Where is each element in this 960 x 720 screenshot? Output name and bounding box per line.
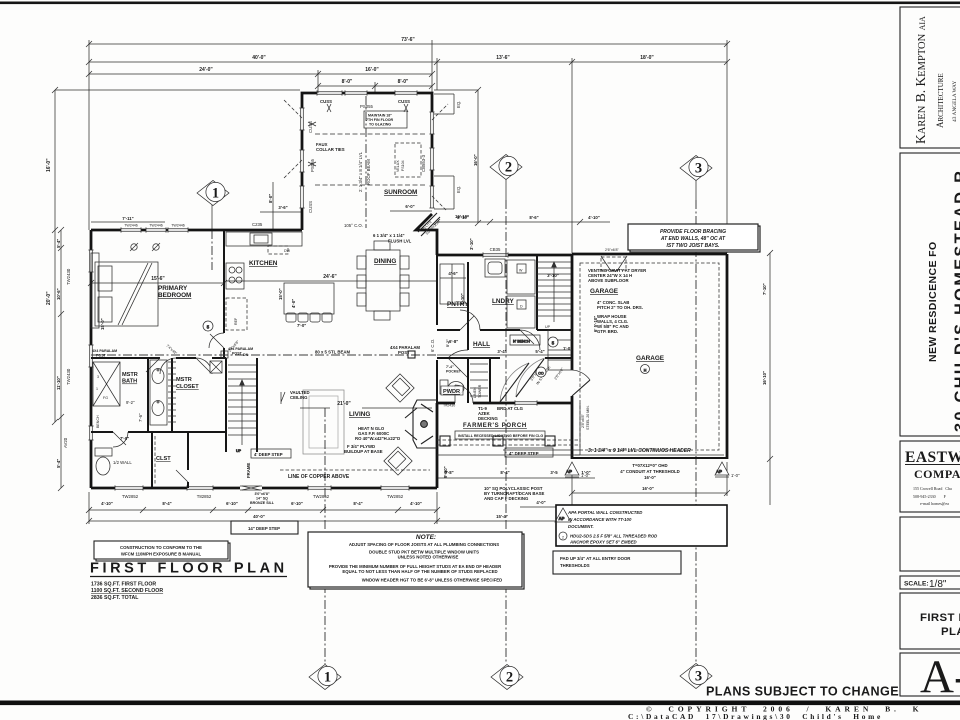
svg-text:8'-6": 8'-6" [529,215,538,220]
svg-text:9'-10": 9'-10" [443,466,448,478]
grid line 1 upper [211,230,213,270]
linen closet wall x490 [489,358,491,403]
bedroom door arc [209,333,224,348]
svg-text:ADJUST SPACING OF FLOOR JOISTS: ADJUST SPACING OF FLOOR JOISTS AT ALL PL… [349,542,499,547]
svg-text:3: 3 [695,669,702,685]
svg-text:BATH: BATH [122,379,137,385]
svg-text:5'-2": 5'-2" [446,339,450,347]
porch dim 15'-4 [437,520,580,522]
wall laundry east / stair west x537 [536,255,538,330]
svg-text:IST TWO JOIST BAYS.: IST TWO JOIST BAYS. [667,243,720,249]
svg-text:3: 3 [695,161,702,177]
svg-text:DOCUMENT.: DOCUMENT. [568,524,594,529]
svg-text:4'-6": 4'-6" [448,271,457,276]
svg-text:13'-6": 13'-6" [496,55,510,61]
svg-text:8'-0": 8'-0" [398,79,409,85]
svg-text:7'-10": 7'-10" [762,283,767,295]
svg-text:8'-4": 8'-4" [162,501,171,506]
svg-text:TW2430: TW2430 [66,368,71,385]
svg-text:SUNROOM: SUNROOM [384,189,417,196]
svg-text:PS055: PS055 [360,104,374,109]
title box sheet name [900,593,960,649]
toilet wc [95,448,112,475]
garage top wall [572,253,727,256]
svg-text:HDU2-SDS 2.5 F 5/8" ALL THREAD: HDU2-SDS 2.5 F 5/8" ALL THREADED ROD [570,534,657,539]
svg-text:1'-0": 1'-0" [581,473,590,478]
porch post [440,436,450,446]
svg-text:e-mail homes@ea: e-mail homes@ea [920,501,949,506]
cooktop [226,263,244,289]
svg-text:2'8"x6'8": 2'8"x6'8" [581,414,585,428]
left inner dim column [60,230,62,488]
wall hall bottom / porch top [437,402,572,405]
bottom dim row 40'-0" [89,520,437,522]
svg-text:15'-4": 15'-4" [496,514,508,519]
svg-text:3: 3 [97,375,99,379]
svg-text:105° C.O.: 105° C.O. [344,223,363,228]
svg-text:PLANS SUBJECT TO CHANGE: PLANS SUBJECT TO CHANGE [706,685,899,699]
beam line 4x4 posts [91,354,437,356]
svg-text:1: 1 [96,387,98,391]
mudroom-garage landing [548,330,572,370]
svg-text:2: 1 3/4" x 8 1/4" LVL: 2: 1 3/4" x 8 1/4" LVL [358,151,363,192]
svg-text:20'-0": 20'-0" [46,291,52,305]
wall clst west x152 [151,432,153,488]
svg-text:TW2446: TW2446 [149,224,163,228]
porch post [545,436,555,446]
svg-text:DINING: DINING [374,258,396,265]
svg-text:FRAME: FRAME [246,463,251,478]
svg-text:5'-4": 5'-4" [56,239,61,248]
svg-text:FIRST FL: FIRST FL [920,612,960,624]
shower [93,362,120,406]
wall hall y330 [437,329,572,331]
svg-text:3'-6": 3'-6" [278,205,287,210]
svg-text:AV20: AV20 [63,437,68,448]
svg-text:6'-8": 6'-8" [449,339,458,344]
garage man door [572,380,590,396]
grid bubble 2 bottom [491,665,523,690]
svg-text:SCALE:: SCALE: [904,581,929,588]
sheet bottom heavy rule [0,701,960,706]
svg-text:4'-10": 4'-10" [588,215,600,220]
garage right wall [726,254,729,459]
grid bubble 3 bottom [680,664,712,689]
window winder marks [308,104,408,166]
svg-text:7'-0": 7'-0" [297,323,306,328]
stairs lower [228,365,256,453]
fireplace [405,400,437,448]
svg-text:DECKING: DECKING [478,416,498,421]
svg-text:5'-4": 5'-4" [535,349,544,354]
title box project name [900,153,960,436]
grid line 1 lower [324,408,326,663]
room label PWDR [441,386,463,395]
svg-text:PITCH 2" TO OH. DRS.: PITCH 2" TO OH. DRS. [597,305,643,310]
wall pwdr east x468 [467,358,469,403]
window TW2852 [115,485,143,490]
left dim line 16'-0" sunroom level [55,89,300,91]
svg-text:COLLAR TIES: COLLAR TIES [316,147,345,152]
svg-text:AP: AP [559,516,565,521]
svg-text:2: 2 [562,536,564,540]
svg-text:ROOF BEAM: ROOF BEAM [366,159,371,185]
svg-text:WNDOW HEADER HGT TO BE 6'-8" U: WNDOW HEADER HGT TO BE 6'-8" UNLESS OTHE… [362,578,502,583]
sunroom windows right [429,112,434,134]
svg-text:16'-0": 16'-0" [644,475,656,480]
svg-text:COMPA: COMPA [914,467,960,481]
svg-text:16'-0": 16'-0" [365,67,379,73]
svg-text:CLOSET: CLOSET [176,384,199,390]
dim 6'-0" sunroom [390,210,432,212]
EQ tag upper [434,94,454,114]
svg-text:PWDR: PWDR [443,389,460,395]
svg-text:VELUX: VELUX [396,160,400,172]
dim 7'-11" bedroom top [91,221,165,223]
svg-text:TW2446: TW2446 [171,224,185,228]
dim line 40/13-6/18 row [89,61,727,63]
svg-text:FARMER'S PORCH: FARMER'S PORCH [463,423,527,429]
svg-text:16'-0": 16'-0" [473,154,478,166]
svg-text:14" DEEP STEP: 14" DEEP STEP [248,526,280,531]
svg-text:BRD AT CLG: BRD AT CLG [497,406,524,411]
svg-text:D: D [520,305,523,309]
svg-text:1: 1 [324,670,331,686]
svg-text:30 CHILD'S HOMESTEAD R: 30 CHILD'S HOMESTEAD R [952,169,960,432]
grid bubble 2 top [490,155,522,201]
svg-text:A-: A- [920,651,960,703]
svg-text:4'-0": 4'-0" [291,299,296,308]
svg-text:TW2852: TW2852 [122,494,139,499]
svg-text:N' BENCH: N' BENCH [513,340,530,344]
svg-text:MSTR: MSTR [122,372,138,378]
svg-text:IN ACCORDANCE WITH TT-100: IN ACCORDANCE WITH TT-100 [568,517,632,522]
grid line 2 [505,200,507,663]
svg-text:KITCHEN: KITCHEN [249,260,278,267]
svg-text:W: W [519,269,523,273]
dim line 24/16 row [89,73,432,75]
wall top of left wing [91,229,302,232]
svg-text:18'-0": 18'-0" [640,55,654,61]
collar ties dashed [315,133,425,135]
svg-text:4'-10": 4'-10" [410,501,422,506]
svg-text:1100 SQ.FT. SECOND FLOOR: 1100 SQ.FT. SECOND FLOOR [91,588,163,594]
svg-text:T=07X12=0" OHD: T=07X12=0" OHD [632,463,667,468]
grid bubble 3 top [680,156,712,201]
pantry shelves [440,264,464,304]
svg-text:PRIMARY: PRIMARY [158,285,188,292]
general note box [308,532,524,589]
svg-text:7'-4": 7'-4" [446,365,454,369]
svg-text:5'-4": 5'-4" [56,459,61,468]
svg-text:7'-0": 7'-0" [120,436,129,441]
svg-text:43 ANGELA WAY: 43 ANGELA WAY [952,81,958,122]
svg-text:15'-0": 15'-0" [100,318,105,330]
sunroom diag braces [284,100,448,210]
armchair lower [384,447,412,475]
apa portal note box [556,505,727,546]
svg-text:2: 2 [506,670,513,686]
svg-text:1/8": 1/8" [929,579,947,590]
dim line 8/8 sunroom [318,85,432,87]
wall top entry/mudroom [437,254,572,257]
window TW2446 [146,227,166,232]
title box blank [900,517,960,571]
svg-text:4' DEEP STEP: 4' DEEP STEP [254,452,283,457]
svg-text:POST: POST [232,352,243,356]
bottom dim row 1 [89,509,437,511]
svg-text:CONSTRUCTION TO CONFORM TO THE: CONSTRUCTION TO CONFORM TO THE [120,545,202,550]
svg-text:80 x 5 STL BEAM: 80 x 5 STL BEAM [315,350,350,355]
svg-text:TO GLAZING: TO GLAZING [369,123,391,127]
sunroom interior dim 8'-0" [272,182,274,230]
dim 15'-6" bedroom [91,282,224,284]
wall living east x437 [436,403,439,488]
svg-text:FG: FG [103,396,108,400]
svg-text:EQ.: EQ. [456,186,461,193]
svg-text:2836 SQ.FT. TOTAL: 2836 SQ.FT. TOTAL [91,595,139,601]
window TW2852 [308,485,331,490]
line of copper above [280,469,430,471]
hall back door [455,385,473,403]
svg-text:155 Crowell Road Cha: 155 Crowell Road Cha [913,486,952,491]
svg-text:BUILDUP AT BASE: BUILDUP AT BASE [344,449,383,454]
svg-text:NOTE:: NOTE: [416,534,436,541]
kitchen counter top [226,232,302,246]
svg-text:16'-10": 16'-10" [762,371,767,385]
hall window [515,400,537,405]
svg-text:15'-0": 15'-0" [278,288,283,300]
dw dashed [268,246,288,254]
wall bedroom bottom y358 [91,357,226,359]
svg-text:6 1 3/4" x 1 1/4": 6 1 3/4" x 1 1/4" [373,233,405,238]
front door [240,486,262,490]
circle tag 5 [548,337,558,347]
svg-text:1736 SQ.FT. FIRST FLOOR: 1736 SQ.FT. FIRST FLOOR [91,582,156,588]
window TW2852 [381,485,409,490]
svg-text:CLST: CLST [156,456,171,462]
wall left exterior [90,230,93,488]
pwdr toilet [440,380,464,395]
sunroom walls [302,93,432,230]
svg-text:BENCH: BENCH [96,415,100,428]
wall wc y432 [91,431,226,433]
svg-text:CUSS: CUSS [398,99,410,104]
armchair upper [386,374,414,402]
svg-text:FLUSH LVL: FLUSH LVL [388,239,412,244]
svg-text:BRONZE SILL: BRONZE SILL [250,501,275,505]
svg-text:TW2430: TW2430 [66,268,71,285]
porch dim 4'-0 [520,506,572,508]
porch post [493,436,503,446]
mudroom door diagonals [500,359,544,402]
svg-text:4X4 PARALAM: 4X4 PARALAM [228,347,253,351]
svg-text:FS104: FS104 [401,160,405,171]
svg-text:8'-4": 8'-4" [353,501,362,506]
svg-text:6' C.O.: 6' C.O. [430,339,435,352]
wall bath/closet divider x148 [147,358,149,432]
svg-text:INSTALL RECESSED LIGHTING BEFO: INSTALL RECESSED LIGHTING BEFORE FIN CLG [458,434,543,438]
svg-text:14" SQ: 14" SQ [256,497,268,501]
svg-text:11'-10": 11'-10" [56,376,61,390]
svg-text:LNDRY: LNDRY [492,298,515,305]
svg-text:1'-0": 1'-0" [563,346,572,351]
closet rod dashes [154,436,156,484]
svg-text:T82852: T82852 [197,494,212,499]
window TW2446 [168,227,188,232]
wc door arc [113,432,128,447]
svg-text:GARAGE: GARAGE [590,288,619,295]
sunroom windows top [317,90,342,95]
fridge dashed [226,298,247,330]
bedroom window seats [91,253,99,328]
svg-text:PROVIDE FLOOR BRACING: PROVIDE FLOOR BRACING [660,229,726,235]
svg-text:AND CAP F DECKING: AND CAP F DECKING [484,496,529,501]
svg-text:CUSS: CUSS [308,201,313,213]
svg-text:CUSS: CUSS [320,99,332,104]
svg-text:WFCM 110MPH EXPOSURE B MANUAL: WFCM 110MPH EXPOSURE B MANUAL [121,552,202,557]
hall dim line [437,354,571,356]
svg-text:10'-6": 10'-6" [56,288,61,300]
sunroom windows left [299,108,304,130]
svg-text:EQUAL TO NOT LESS THAN HALF OF: EQUAL TO NOT LESS THAN HALF OF THE NUMBE… [342,569,497,574]
garage bottom wall / ohd header [572,457,727,459]
svg-text:TW2852: TW2852 [387,494,404,499]
dim row entry 8'-10 / 8'-6 / 4'-10 [437,221,610,223]
svg-text:PAD UP 3/4" AT ALL ENTRY DOOR: PAD UP 3/4" AT ALL ENTRY DOOR [560,556,631,561]
bottom dim extensions [88,492,90,524]
svg-text:TW2852: TW2852 [313,494,330,499]
svg-text:POCKET: POCKET [446,370,462,374]
svg-text:MSTR: MSTR [176,377,192,383]
svg-text:C:\DataCAD 17\Drawings\30 Chil: C:\DataCAD 17\Drawings\30 Child's Home [628,712,883,720]
svg-text:BEDROOM: BEDROOM [158,292,191,299]
title box sheet number [900,653,960,696]
svg-text:508-945-2330 F: 508-945-2330 F [913,494,947,499]
closet door arc [196,358,212,374]
svg-text:24'-0": 24'-0" [199,67,213,73]
svg-text:HALL: HALL [473,341,490,348]
svg-text:9'-2": 9'-2" [126,400,135,405]
circle tag 5 kitchen [203,321,213,331]
svg-text:4" DEEP STEP: 4" DEEP STEP [509,451,539,456]
wall hall bottom y358 [437,357,571,359]
sheet top border line [0,2,960,5]
circle tag CO [536,367,546,377]
living room couch [303,390,344,454]
grid bubble 1 bottom [309,663,341,690]
svg-text:AP: AP [566,469,572,474]
svg-text:AP: AP [716,469,722,474]
svg-text:TOWER: TOWER [478,384,482,398]
title box architect [900,7,960,148]
svg-text:2'6"x6'8": 2'6"x6'8" [605,248,619,252]
svg-text:PNTRY: PNTRY [447,301,469,308]
stairs upper [537,262,571,322]
clst door [176,470,188,482]
garage vent chute [601,256,627,271]
svg-text:CB553-3: CB553-3 [421,154,426,172]
hall door arcs [460,310,480,330]
svg-text:CB35: CB35 [490,247,501,252]
maintain glazing box [364,111,407,128]
svg-text:REF: REF [234,317,238,325]
svg-text:LINE OF COPPER ABOVE: LINE OF COPPER ABOVE [288,474,350,480]
step box bottom [231,521,298,534]
svg-text:ARCHITECTURE: ARCHITECTURE [935,73,945,128]
wall pantry west x437 [436,255,438,403]
right side dim 16'-0" sunroom [477,90,479,223]
svg-text:3'-4": 3'-4" [497,349,506,354]
svg-text:7TH FIN FLOOR: 7TH FIN FLOOR [366,118,394,122]
svg-text:16'-0": 16'-0" [46,158,52,172]
window T82852 [187,485,213,490]
svg-text:3'-10": 3'-10" [469,238,474,250]
window TW2430 left [88,250,93,272]
svg-text:GARAGE: GARAGE [636,355,665,362]
svg-text:24'-6": 24'-6" [323,274,337,280]
laundry sink [485,259,505,277]
svg-text:4'-10": 4'-10" [101,501,113,506]
svg-text:6'-0": 6'-0" [405,204,414,209]
ridge beam dashdot [365,96,367,228]
dim line overall 73'-6" [89,43,727,45]
svg-text:UNLESS NOTED OTHERWISE: UNLESS NOTED OTHERWISE [398,555,459,560]
svg-text:DN: DN [243,353,249,357]
svg-text:8'-0": 8'-0" [268,194,273,203]
svg-text:UP: UP [545,325,551,329]
svg-text:CEILING: CEILING [290,395,308,400]
svg-text:6'-10": 6'-10" [226,501,238,506]
title box builder [900,441,960,512]
svg-text:POST: POST [398,350,410,355]
vanity [150,360,167,425]
dim 24'-6" kitchen-dining [226,280,437,282]
washer dryer [507,260,535,328]
window AV20 [88,426,93,440]
island [284,283,334,322]
grid line 3 [695,200,697,662]
bed [95,262,158,326]
holddown AP left [565,462,579,477]
holddown AP porch [555,508,571,522]
svg-text:LIVING: LIVING [349,411,370,418]
svg-text:H: H [644,369,647,373]
svg-text:EQ.: EQ. [456,101,461,108]
dim 3'-6" [260,211,302,213]
garage ohd dim 16'-0 [572,492,727,494]
svg-text:3: 1 3/4" x 9 1/4" LVL CONTINU: 3: 1 3/4" x 9 1/4" LVL CONTINUOS HEADER [588,448,691,454]
svg-text:4'-0": 4'-0" [536,500,545,505]
svg-text:1'-0": 1'-0" [731,473,740,478]
pad up note box [553,551,681,574]
garage left wall [571,254,574,459]
wall closet hatched x172 [171,358,173,432]
wall stair west x226 [225,358,227,452]
shaft box [210,361,222,373]
svg-text:LINEN: LINEN [473,387,477,398]
svg-text:GTP. BRD.: GTP. BRD. [597,329,618,334]
svg-text:1/2 WALL: 1/2 WALL [113,460,132,465]
svg-text:40'-0": 40'-0" [252,55,266,61]
post [221,351,228,358]
window CB35 [483,252,508,257]
wall pantry east x468 [467,262,469,403]
title box scale [900,576,960,589]
svg-text:3'-5: 3'-5 [550,470,558,475]
svg-text:POST: POST [96,354,107,358]
porch deck dashed [437,440,578,445]
